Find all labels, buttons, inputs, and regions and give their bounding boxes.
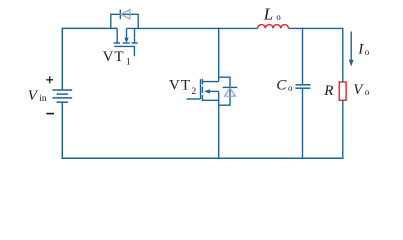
label Co (276, 78, 293, 94)
svg-text:C: C (276, 78, 287, 94)
label + (battery positive) (46, 76, 53, 83)
diode D2 (VT2 antiparallel diode) (218, 77, 237, 105)
svg-text:in: in (39, 94, 47, 104)
svg-text:VT: VT (169, 77, 191, 93)
wire: capacitor branch lower (302, 88, 304, 159)
wire: top rail middle segment (VT1 source to inductor) (127, 27, 258, 29)
svg-text:I: I (357, 42, 364, 58)
arrow Io (output current) (349, 32, 354, 67)
label - (battery negative) (46, 113, 54, 115)
transistor VT1 (MOSFET) (114, 28, 138, 56)
svg-text:o: o (365, 47, 370, 57)
svg-text:o: o (365, 87, 370, 97)
svg-text:V: V (28, 88, 39, 104)
svg-text:R: R (323, 83, 333, 99)
capacitor Co (296, 85, 311, 88)
inductor Lo (258, 25, 289, 29)
wire: middle branch lower (VT2 source to bottom rail) (218, 91, 220, 158)
wire: middle branch upper (top rail to VT2 drain) (218, 28, 220, 82)
label VT2 (169, 77, 197, 97)
resistor R (339, 82, 346, 100)
svg-text:VT: VT (103, 49, 125, 65)
svg-text:1: 1 (126, 58, 131, 68)
label Lo (263, 4, 281, 23)
svg-text:o: o (276, 12, 281, 22)
wire: right branch lower (R to bottom rail) (342, 100, 344, 159)
wire: right branch upper (top-right corner to R) (341, 28, 344, 82)
transistor VT2 (MOSFET) (187, 79, 219, 101)
svg-text:o: o (288, 83, 293, 93)
svg-text:L: L (263, 4, 273, 23)
wire: left branch lower (Vin - to bottom rail) (61, 102, 63, 159)
diode D1 (VT1 antiparallel diode) (111, 10, 138, 30)
battery Vin (52, 90, 72, 102)
label Vin (28, 88, 47, 104)
wire: top rail right segment (inductor to top-right corner) (289, 27, 343, 29)
label VT1 (103, 49, 131, 67)
wire: capacitor branch upper (302, 28, 304, 85)
label Vo (353, 82, 370, 98)
svg-text:2: 2 (192, 87, 197, 97)
wire: bottom rail (62, 157, 344, 159)
label R (323, 83, 333, 99)
wire: left branch upper (Vin + to top-left corner) (62, 28, 117, 90)
label Io (357, 42, 370, 58)
svg-text:V: V (353, 82, 364, 98)
